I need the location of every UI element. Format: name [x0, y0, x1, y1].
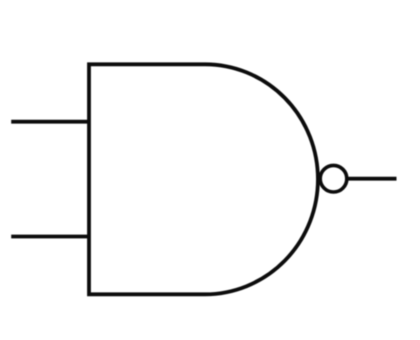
wire input B (bottom): [11, 235, 89, 239]
inversion bubble at output: [320, 165, 347, 192]
NAND gate U1 body (AND D-shape): [89, 64, 318, 294]
wire output Y: [347, 177, 397, 181]
wire input A (top): [11, 120, 89, 124]
